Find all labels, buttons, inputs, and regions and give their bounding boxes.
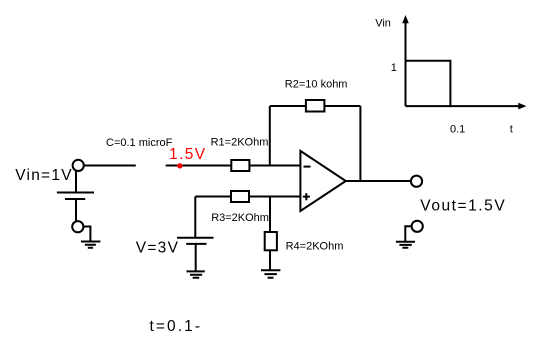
graph horizontal axis arrowhead: [518, 103, 526, 110]
svg-text:R1=2KOhm: R1=2KOhm: [211, 137, 269, 149]
wire T1 to battery Vin: [75, 171, 77, 193]
svg-text:Vin: Vin: [375, 17, 391, 29]
svg-text:R2=10 kohm: R2=10 kohm: [285, 78, 348, 90]
wire R1 to op-amp inverting input: [249, 165, 300, 167]
svg-text:1: 1: [391, 62, 397, 74]
wire T4 to ground: [405, 226, 411, 241]
wire R4 stem lower: [269, 250, 271, 270]
ground under T2: [81, 242, 101, 248]
ground under T4: [396, 242, 415, 248]
resistor R2: [306, 100, 325, 112]
terminal T1 (Vin input): [73, 160, 84, 171]
graph horizontal axis: [406, 105, 520, 107]
wire output: [346, 180, 411, 182]
wire down to battery V=3V: [194, 197, 196, 238]
ground under V=3V: [187, 271, 205, 277]
graph vertical axis arrowhead: [402, 15, 409, 23]
battery V=3V long plate: [177, 237, 214, 239]
resistor R4: [265, 232, 277, 250]
wire T2 to ground: [84, 227, 91, 242]
resistor R1: [231, 160, 249, 171]
svg-text:R4=2KOhm: R4=2KOhm: [286, 241, 344, 253]
graph vertical axis: [405, 21, 407, 106]
wire battery Vin to T2: [75, 199, 77, 221]
ground under R4: [261, 270, 280, 277]
svg-text:Vout=1.5V: Vout=1.5V: [420, 198, 506, 215]
wire noninverting input left segment: [195, 196, 231, 198]
wire R4 stem upper: [269, 197, 271, 233]
wire R3 to op-amp noninverting input: [249, 196, 300, 198]
wire feedback top left segment: [270, 105, 306, 107]
terminal T4 (Vout reference): [412, 221, 423, 232]
svg-text:R3=2KOhm: R3=2KOhm: [211, 212, 269, 224]
graph pulse waveform: [406, 61, 451, 106]
wire from T1 to open gap: [84, 165, 136, 167]
battery V=3V short plate: [186, 243, 206, 245]
wire feedback left vertical: [269, 106, 271, 166]
svg-text:1.5V: 1.5V: [169, 146, 207, 163]
resistor R3: [231, 191, 249, 202]
battery Vin long plate: [57, 192, 94, 194]
node 1.5V (red dot): [177, 163, 182, 168]
svg-text:0.1: 0.1: [450, 123, 465, 135]
svg-text:C=0.1 microF: C=0.1 microF: [106, 137, 173, 149]
op-amp minus sign: [304, 166, 311, 168]
svg-text:Vin=1V: Vin=1V: [15, 167, 73, 184]
svg-text:V=3V: V=3V: [136, 240, 180, 257]
svg-text:t=0.1-: t=0.1-: [150, 318, 203, 335]
op-amp U1: [300, 151, 345, 211]
terminal T3 (Vout): [411, 176, 422, 187]
wire battery to ground: [195, 244, 197, 272]
svg-text:t: t: [510, 123, 513, 135]
wire feedback right vertical to output: [359, 106, 361, 181]
wire from gap through node to R1: [166, 165, 232, 167]
wire feedback top right segment: [324, 105, 360, 107]
battery Vin short plate: [65, 198, 85, 200]
terminal T2 (Vin return): [72, 221, 83, 232]
op-amp plus sign: [303, 193, 310, 200]
